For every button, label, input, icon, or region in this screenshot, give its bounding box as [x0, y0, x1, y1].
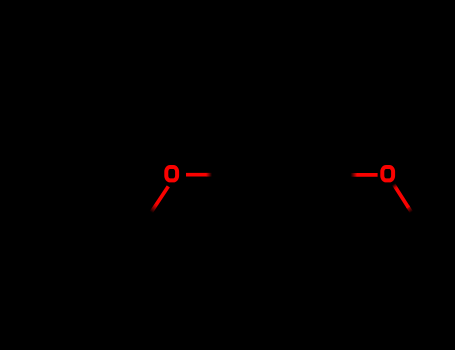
benzene ring C1-C6	[212, 117, 346, 233]
red bond C4 to O(right), fade	[351, 173, 358, 177]
red bond O(left) to C1, fade	[206, 173, 212, 177]
ring double bond inner line bottom	[251, 224, 306, 227]
red bond O(right) to CH3, fade top	[394, 184, 397, 188]
bond C4-O right black tail	[346, 173, 352, 176]
allyl double bond CH=CH2	[60, 190, 104, 213]
bond O-CH2 black tail	[148, 208, 153, 213]
allyl double bond second line	[65, 199, 101, 218]
allyl terminal segment	[26, 212, 60, 215]
bond C1-O left black tail	[207, 173, 212, 176]
red bond O(left) to CH2, fade	[151, 205, 156, 213]
red bond C4 to O(right), solid part	[357, 173, 378, 177]
ring double bond inner line top	[251, 123, 306, 126]
bond O-CH3 black tail	[409, 208, 415, 214]
allyl bond CH2-CH	[104, 190, 148, 213]
red bond O(left) to CH2, solid part	[156, 186, 168, 204]
red bond O(left) to C1, solid part	[186, 173, 206, 177]
oxygen atom O left	[166, 167, 177, 180]
red bond O(right) to CH3, solid part	[396, 188, 408, 207]
oxygen atom O right	[382, 167, 393, 180]
red bond O(right) to CH3, fade bottom	[407, 206, 411, 212]
